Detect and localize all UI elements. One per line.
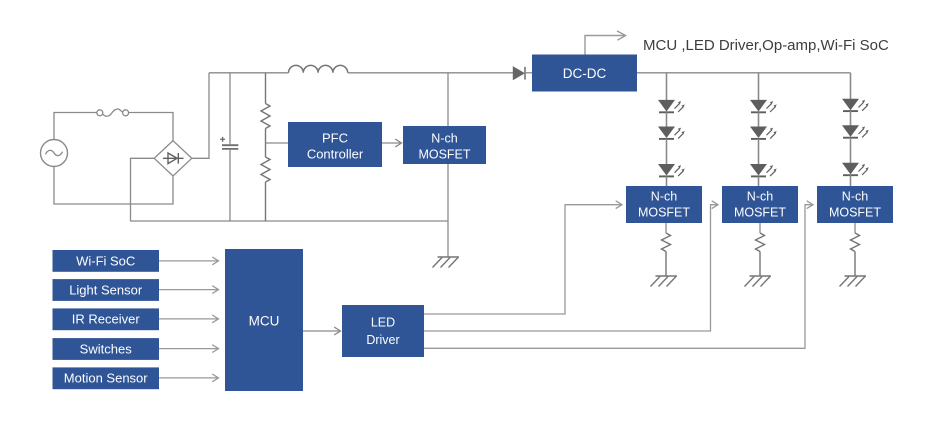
Light Sensor block: [53, 279, 160, 301]
svg-text:N-ch: N-ch: [842, 189, 868, 203]
wire MOSFET source to ground: [447, 164, 449, 257]
ground (PFC stage): [433, 257, 460, 268]
wire LED string 3 top: [850, 73, 852, 100]
ground (Q3): [840, 276, 867, 287]
arrow DC-DC auxiliary output: [585, 31, 626, 55]
wire inductor to diode: [348, 72, 513, 74]
wire Q3 source: [854, 223, 856, 233]
wire string 2 to Q2: [758, 176, 760, 186]
N-ch MOSFET Q2: [722, 186, 798, 223]
svg-text:MCU: MCU: [249, 314, 280, 329]
svg-text:MOSFET: MOSFET: [829, 205, 881, 219]
svg-text:Light Sensor: Light Sensor: [69, 282, 143, 297]
wire: [758, 139, 760, 165]
LED D3: [659, 127, 685, 139]
LED D9: [843, 126, 869, 138]
diode D1: [513, 67, 532, 80]
arrow Switches to MCU: [159, 345, 219, 353]
ground (Q1): [651, 276, 678, 287]
wire Q2 source: [759, 223, 761, 233]
LED D4: [659, 165, 685, 177]
resistor R5: [851, 233, 860, 276]
N-ch MOSFET Q3: [817, 186, 893, 223]
label MCU LED Driver Op-amp Wi-Fi SoC: [643, 37, 889, 54]
svg-text:IR Receiver: IR Receiver: [72, 312, 141, 327]
svg-text:LED: LED: [371, 316, 395, 330]
svg-text:Switches: Switches: [80, 341, 133, 356]
svg-text:N-ch: N-ch: [747, 189, 773, 203]
wire bridge right up to top rail: [192, 73, 209, 159]
wire LED string 1 top: [666, 73, 668, 101]
N-ch MOSFET U2 (PFC stage): [403, 126, 486, 164]
wire fuse to bridge top: [128, 113, 173, 141]
wire gate feed 1: [424, 201, 622, 314]
wire tap to PFC: [266, 142, 289, 144]
inductor L1: [289, 65, 348, 72]
wire: [850, 138, 852, 164]
LED D5: [751, 100, 777, 112]
wire gate feed 3: [424, 201, 813, 348]
ground (Q2): [745, 276, 772, 287]
svg-text:Controller: Controller: [307, 146, 364, 161]
wire string 1 to Q1: [666, 176, 668, 186]
wire AC top to fuse: [54, 113, 97, 140]
wire: [758, 112, 760, 127]
wire bottom rail: [131, 220, 448, 222]
svg-text:N-ch: N-ch: [651, 189, 677, 203]
svg-text:MOSFET: MOSFET: [734, 205, 786, 219]
svg-text:MCU ,LED Driver,Op-amp,Wi-Fi S: MCU ,LED Driver,Op-amp,Wi-Fi SoC: [643, 37, 889, 54]
wire bridge left to bottom rail: [131, 158, 155, 221]
svg-text:N-ch: N-ch: [431, 132, 457, 146]
svg-text:DC-DC: DC-DC: [563, 66, 607, 81]
capacitor C1: [220, 73, 238, 221]
wire string 3 to Q3: [850, 175, 852, 186]
resistor R4: [756, 233, 765, 276]
wire: [666, 139, 668, 165]
LED Driver block: [342, 305, 424, 357]
LED D7: [751, 165, 777, 177]
wire Q1 source: [665, 223, 667, 233]
arrow MCU to LED Driver: [303, 327, 341, 335]
svg-text:Driver: Driver: [366, 333, 399, 347]
N-ch MOSFET Q1: [626, 186, 702, 223]
wire gate feed 2: [424, 201, 718, 331]
svg-text:PFC: PFC: [322, 130, 348, 145]
Switches block: [53, 338, 160, 360]
wire top rail to inductor: [209, 72, 289, 74]
Motion Sensor block: [53, 367, 160, 389]
wire LED string 2 top: [758, 73, 760, 101]
arrow Wi-Fi SoC to MCU: [159, 257, 219, 265]
IR Receiver block: [53, 308, 160, 330]
bridge rectifier BR1: [154, 141, 192, 176]
resistor R2: [261, 143, 270, 221]
DC-DC block: [532, 55, 637, 92]
LED D2: [659, 100, 685, 112]
LED D8: [843, 99, 869, 111]
svg-text:Motion Sensor: Motion Sensor: [64, 371, 148, 386]
PFC controller block: [288, 122, 382, 167]
arrow PFC to MOSFET: [382, 139, 402, 147]
wire top rail into MOSFET drain: [447, 73, 449, 126]
wire: [850, 111, 852, 126]
MCU block: [225, 249, 303, 391]
resistor R1: [261, 73, 270, 143]
svg-text:MOSFET: MOSFET: [638, 205, 690, 219]
fuse F1: [97, 109, 129, 116]
arrow Motion Sensor to MCU: [159, 374, 219, 382]
arrow Light Sensor to MCU: [159, 286, 219, 294]
arrow IR Receiver to MCU: [159, 315, 219, 323]
LED D6: [751, 127, 777, 139]
LED D10: [843, 163, 869, 175]
Wi-Fi SoC block: [53, 250, 160, 272]
wire: [666, 112, 668, 127]
svg-text:Wi-Fi SoC: Wi-Fi SoC: [76, 253, 135, 268]
resistor R3: [662, 233, 671, 276]
wire DC-DC output rail: [637, 72, 851, 74]
svg-text:MOSFET: MOSFET: [418, 148, 470, 162]
AC source V1: [41, 140, 68, 167]
wire AC bottom to bridge bottom: [54, 167, 173, 205]
